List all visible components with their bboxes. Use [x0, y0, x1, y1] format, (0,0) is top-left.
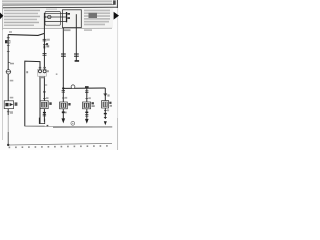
- W7 tick label: [104, 109, 109, 111]
- ground rail A: [25, 125, 112, 128]
- header text row 1: [2, 0, 112, 4]
- wire W2 vertical (track 5): [43, 13, 45, 122]
- W6 top terminal: [85, 86, 89, 88]
- M3 label: [68, 103, 70, 106]
- W6 thick bar: [85, 112, 88, 113]
- wire relay lower: [44, 21, 66, 23]
- W2 double tick lower: [43, 114, 46, 116]
- right nav triangle: [114, 12, 119, 20]
- bridge wire n-shape: [25, 61, 40, 126]
- W4 junction blob: [62, 87, 64, 89]
- W4 thick bar: [62, 111, 65, 112]
- right page border: [116, 0, 118, 150]
- W6 double tick lower: [85, 115, 88, 117]
- junction dot: [44, 16, 46, 18]
- W2 tick label: [43, 97, 49, 99]
- wire relay middle: [44, 16, 66, 18]
- left bus tick2: [7, 45, 10, 47]
- H1 corner label: [9, 31, 12, 33]
- left bus tick3: [7, 50, 10, 52]
- W7 thick bar: [104, 113, 107, 114]
- W7 tick: [104, 117, 107, 119]
- left bus label2: [10, 80, 14, 82]
- ground rail A dark right: [53, 126, 112, 128]
- relay label: [64, 29, 71, 31]
- W6 ground arrow: [85, 119, 89, 124]
- W4 connector bars: [61, 54, 66, 56]
- left page border: [2, 5, 4, 140]
- W4 lower wire: [62, 88, 64, 118]
- W2 connector label: [47, 39, 50, 41]
- M5 labels: [109, 102, 112, 107]
- ground rail dark segment: [25, 125, 45, 127]
- W2 junction blob: [43, 91, 45, 93]
- W2 connector double tick: [43, 39, 47, 41]
- wire bus H1: [8, 33, 44, 35]
- motor box M4: [83, 102, 91, 109]
- W4 tick label: [62, 97, 67, 99]
- relay contact upper: [67, 13, 70, 15]
- ground point circle label: [71, 121, 75, 125]
- wire left bus faint lower: [7, 115, 9, 145]
- track numbers: [9, 145, 108, 148]
- W2 thick bar below box: [43, 112, 46, 114]
- legend rule: [3, 27, 112, 30]
- terminal circle symbol on left bus: [6, 70, 11, 74]
- wire relay upper: [44, 13, 66, 15]
- wire H2 horizontal: [63, 87, 105, 89]
- connector block T2: [38, 67, 49, 78]
- W2 small tick: [44, 84, 47, 86]
- relay internal bar: [66, 12, 67, 22]
- left bus tick: [7, 37, 10, 39]
- switch circle: [48, 15, 51, 18]
- rail B junction blob: [7, 144, 9, 146]
- wire W5 from relay: [75, 14, 77, 60]
- W4 tick: [62, 112, 67, 114]
- track number rail B: [8, 143, 112, 145]
- welded joint circle on H2: [71, 85, 75, 89]
- W6 tick label: [85, 97, 90, 99]
- legend text left block: [4, 10, 40, 26]
- pump label: [15, 102, 18, 105]
- box A top label: [46, 9, 57, 10]
- relay box J: [63, 10, 82, 28]
- W5 connector bars: [74, 54, 79, 56]
- relay contact lower: [67, 17, 70, 19]
- W2 connector double tick 2: [43, 53, 47, 55]
- W7 ground taper: [104, 121, 107, 125]
- wire W7: [104, 88, 106, 119]
- left bus label tick: [8, 63, 14, 65]
- motor box M5: [102, 101, 109, 108]
- W6 double tick: [85, 91, 88, 93]
- pump motor box V on left bus: [4, 101, 13, 109]
- legend text right block: [84, 10, 110, 31]
- motor box M2: [40, 101, 48, 109]
- wire W6: [86, 88, 88, 119]
- header band tint: [2, 0, 114, 8]
- M4 labels: [92, 102, 95, 107]
- W4 double tick below junction: [62, 91, 65, 93]
- wire W4 from relay: [62, 28, 64, 89]
- M2 label: [49, 102, 51, 105]
- header black mark: [113, 0, 116, 4]
- W2 thick segment: [44, 45, 50, 48]
- ignition switch box D (rounded): [45, 12, 61, 26]
- W7 inline connector: [104, 94, 110, 97]
- legend band tint: [3, 8, 113, 28]
- motor box M3: [60, 102, 68, 109]
- left bus tick4: [7, 111, 13, 114]
- W5 terminal T-bar: [75, 60, 80, 62]
- left bus label3: [10, 97, 14, 99]
- fuse S on left bus: [5, 40, 10, 43]
- header rule upper: [3, 4, 114, 6]
- left nav triangle: [0, 13, 3, 20]
- wire left bus vertical: [7, 35, 9, 116]
- ground bracket label dot: [47, 125, 49, 127]
- bridge label dot: [26, 71, 28, 73]
- ground U-bracket: [39, 118, 44, 124]
- W2 tick with label: [43, 43, 48, 45]
- header rule lower: [3, 6, 118, 9]
- stray label dot: [56, 73, 58, 75]
- W4 ground arrow: [62, 118, 66, 123]
